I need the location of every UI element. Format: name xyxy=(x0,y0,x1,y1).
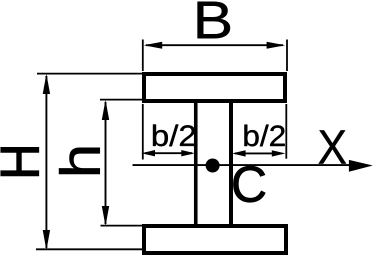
H dimension line xyxy=(45,76,47,248)
b/2 right arrow inward xyxy=(232,150,246,156)
H arrow bottom xyxy=(43,230,50,250)
b/2 left arrow inward xyxy=(181,150,195,156)
web left edge xyxy=(194,101,198,226)
b/2 left arrow outward xyxy=(141,150,155,156)
b/2 extension line left xyxy=(142,104,144,160)
B extension line right xyxy=(286,40,288,72)
B arrow right xyxy=(267,42,286,49)
h arrow top xyxy=(102,100,109,120)
label H (rotated) xyxy=(1,148,39,176)
H extension line bottom xyxy=(36,248,144,250)
label C xyxy=(233,166,265,202)
b/2 left dimension line xyxy=(145,152,192,154)
X axis line xyxy=(133,164,353,166)
h dimension line xyxy=(105,102,107,224)
label b/2 left xyxy=(153,125,195,147)
label X xyxy=(319,130,346,163)
h extension line bottom xyxy=(101,225,145,227)
h arrow bottom xyxy=(102,206,109,226)
H extension line top xyxy=(37,73,144,75)
web right edge xyxy=(229,101,233,226)
B extension line left xyxy=(142,40,144,72)
label B xyxy=(198,2,230,38)
b/2 right arrow outward xyxy=(272,150,286,156)
centroid dot C xyxy=(206,159,220,173)
b/2 right dimension line xyxy=(235,152,282,154)
B arrow left xyxy=(144,42,163,49)
b/2 extension line right xyxy=(285,104,287,159)
bottom flange xyxy=(144,226,286,253)
B dimension line xyxy=(146,44,283,46)
H arrow top xyxy=(43,74,50,94)
label b/2 right xyxy=(244,125,284,147)
h extension line top xyxy=(100,99,144,101)
label h (rotated) xyxy=(59,148,100,174)
X axis arrowhead xyxy=(349,160,373,172)
top flange xyxy=(144,74,285,101)
